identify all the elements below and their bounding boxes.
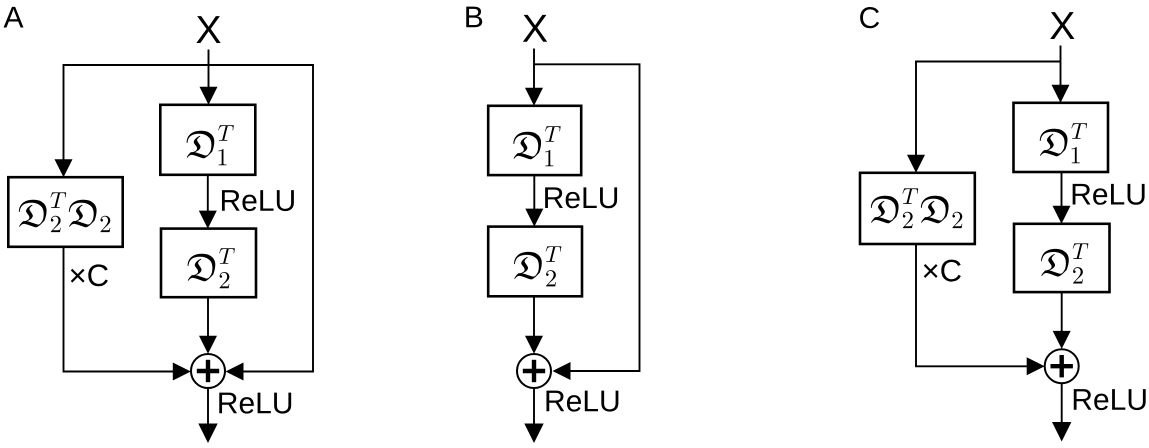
adder circle-plus (A)	[191, 354, 225, 388]
wire: X down to D1 box (C)	[1060, 46, 1062, 88]
arrowhead into adder top (A)	[199, 336, 217, 354]
label D1T in box (C)	[1040, 123, 1087, 163]
box D2TD2 (A)	[8, 177, 122, 247]
arrowhead output (A)	[198, 424, 217, 444]
label D1T in box (B)	[513, 126, 560, 166]
arrowhead into D1 box (A)	[200, 87, 218, 105]
wire: skip connection from X (B)	[534, 64, 640, 371]
arrowhead into adder top (C)	[1053, 331, 1071, 349]
wire: D1 box to D2 box (A)	[207, 175, 209, 213]
arrowhead into D2 box (C)	[1053, 206, 1071, 224]
label ReLU mid (C)	[1073, 184, 1145, 205]
label xC (C)	[924, 260, 961, 282]
arrowhead into D1 box (B)	[525, 88, 543, 106]
box D2T (C)	[1014, 224, 1110, 292]
arrowhead left-branch into adder (C)	[1027, 357, 1045, 375]
label ReLU out (A)	[219, 393, 291, 414]
wire: adder output (A)	[207, 388, 209, 428]
wire: skip connections from X (A)	[64, 65, 314, 372]
arrowhead into D2 box (A)	[199, 211, 217, 229]
label D1T in box (A)	[187, 125, 234, 165]
label xC (A)	[71, 264, 108, 286]
arrowhead into D2 box (B)	[525, 209, 543, 227]
arrowhead bypass into adder (B)	[553, 362, 571, 380]
box D1T (C)	[1014, 103, 1109, 172]
panel label B	[466, 7, 482, 28]
wire: D2 box to adder (C)	[1061, 292, 1063, 333]
wire: adder output (C)	[1061, 383, 1063, 426]
label D2T in box (B)	[514, 246, 561, 286]
arrowhead output (C)	[1052, 422, 1071, 442]
box D2T (B)	[488, 227, 582, 297]
box D1T (B)	[488, 106, 581, 175]
label D2T D2 in box (A)	[19, 192, 110, 232]
arrowhead into adder top (B)	[525, 336, 543, 354]
arrowhead into D1 box (C)	[1052, 85, 1070, 103]
arrowhead left-branch into adder (A)	[173, 363, 191, 381]
input X (C)	[1050, 12, 1074, 39]
box D2TD2 (C)	[860, 173, 975, 244]
label ReLU out (C)	[1074, 389, 1146, 410]
input X (A)	[196, 16, 220, 43]
box D1T (A)	[160, 105, 255, 175]
wire: X down to D1 box (B)	[533, 49, 535, 91]
label ReLU mid (A)	[222, 190, 294, 211]
box D2T (A)	[161, 229, 256, 298]
panel label A	[4, 7, 24, 28]
adder circle-plus (B)	[517, 354, 551, 388]
wire: D2 box to adder (A)	[207, 297, 209, 338]
wire: D1 box to D2 box (C)	[1061, 172, 1063, 208]
adder circle-plus (C)	[1045, 349, 1079, 383]
panel label C	[860, 7, 879, 28]
label ReLU mid (B)	[545, 187, 617, 208]
arrowhead output (B)	[524, 424, 543, 444]
label ReLU out (B)	[546, 391, 618, 412]
wire: D2 box to adder (B)	[533, 296, 535, 338]
label D2T in box (C)	[1041, 243, 1088, 283]
wire: adder output (B)	[533, 388, 535, 428]
input X (B)	[523, 15, 547, 42]
label D2T D2 in box (C)	[871, 188, 962, 228]
wire: skip connection from X to D2TD2 (C)	[916, 62, 1061, 158]
wire: D2TD2 box down and into adder (A)	[64, 247, 174, 372]
arrowhead into D2TD2 box (C)	[907, 155, 925, 173]
arrowhead right-bypass into adder (A)	[226, 363, 244, 381]
arrowhead into D2TD2 box (A)	[55, 159, 73, 177]
wire: D2TD2 box down and into adder (C)	[916, 244, 1027, 366]
label D2T in box (A)	[188, 248, 235, 288]
wire: D1 box to D2 box (B)	[533, 175, 535, 211]
wire: X down to D1 box (A)	[208, 50, 210, 90]
